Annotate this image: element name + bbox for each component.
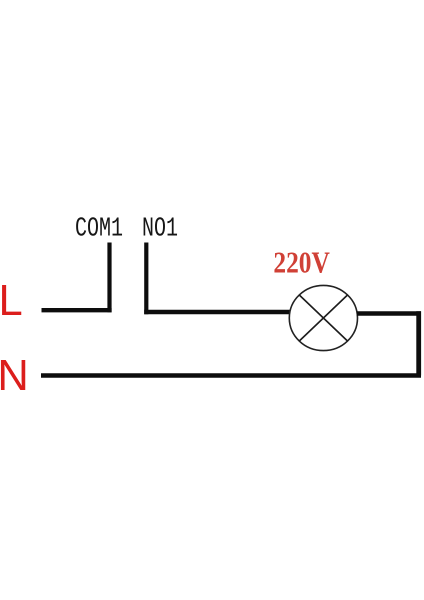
wire right vertical [416,311,421,375]
wire L horizontal [42,308,112,312]
svg-text:L: L [0,277,23,325]
svg-text:N: N [0,352,29,400]
wire N horizontal [41,373,421,378]
svg-text:NO1: NO1 [142,215,178,244]
svg-text:220V: 220V [273,246,330,280]
wire COM1 vertical [107,243,111,313]
wire NO1 vertical [144,243,148,315]
svg-text:COM1: COM1 [75,215,123,244]
wire lamp to right [357,311,421,316]
wire NO1 to lamp [144,310,290,314]
lamp LP1 [289,285,357,350]
